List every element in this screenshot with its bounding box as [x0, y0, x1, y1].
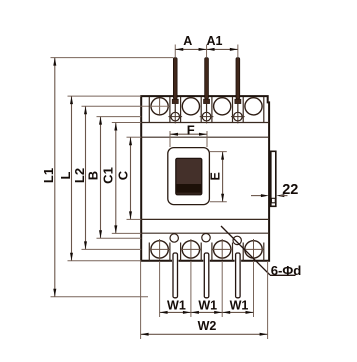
top terminal screw 3 — [231, 110, 245, 124]
bottom mounting hole 3 (6-Phi-d) — [233, 236, 241, 244]
top pin 2 — [204, 58, 210, 113]
svg-text:C1: C1 — [100, 167, 115, 184]
top strip bottom line — [141, 122, 269, 124]
dimension W2 — [141, 261, 268, 339]
dimension C — [115, 137, 141, 219]
svg-text:A: A — [183, 34, 192, 48]
bottom mounting hole 2 — [202, 234, 210, 242]
svg-text:W1: W1 — [230, 299, 249, 313]
face top line — [141, 136, 269, 138]
bottom pin 2 — [203, 253, 210, 298]
top terminal screw 1 — [168, 110, 182, 124]
svg-text:A1: A1 — [207, 34, 223, 48]
dimension A1 — [207, 34, 238, 57]
bottom terminal circle 1 — [149, 239, 170, 260]
svg-text:L: L — [58, 171, 73, 179]
dimension A — [175, 34, 206, 57]
top pole divider walls — [149, 97, 263, 123]
bottom strip inner line — [141, 232, 269, 234]
svg-text:W2: W2 — [198, 319, 217, 333]
face bottom line — [141, 218, 269, 220]
top terminal circle 2 — [182, 98, 199, 115]
leader 6-phi-d — [221, 226, 301, 278]
top terminal circle 3 — [214, 98, 231, 115]
bottom terminal circle 3 — [212, 239, 233, 260]
svg-text:W1: W1 — [167, 299, 186, 313]
bottom pin 3 — [235, 253, 242, 298]
bottom terminal circle 4 — [243, 239, 264, 260]
svg-text:E: E — [209, 172, 223, 180]
dimension C1 — [100, 123, 141, 234]
bottom pole divider walls — [149, 243, 263, 261]
svg-text:6-Φd: 6-Φd — [271, 263, 302, 278]
top terminal screw 2 — [200, 110, 214, 124]
svg-text:W1: W1 — [198, 299, 217, 313]
dimension W1 set — [160, 261, 254, 317]
dimension L — [58, 96, 141, 261]
dimension L1 — [41, 58, 173, 297]
svg-text:C: C — [115, 170, 130, 180]
svg-text:L1: L1 — [41, 168, 56, 183]
svg-text:F: F — [187, 122, 195, 137]
svg-text:B: B — [86, 171, 101, 180]
handle — [176, 158, 202, 195]
bottom pin 1 — [172, 253, 179, 298]
dimension E — [209, 152, 227, 202]
dimension L2 — [72, 106, 141, 249]
top pin 3 — [235, 58, 241, 113]
top pin 1 — [172, 58, 178, 113]
bottom terminal circle 2 — [181, 239, 202, 260]
dimension B — [86, 117, 142, 239]
handle escutcheon — [168, 148, 210, 205]
top terminal circle 4 — [245, 98, 262, 115]
dimension 22 — [251, 182, 298, 198]
dimension F — [170, 122, 207, 147]
top terminal circle 1 — [141, 98, 170, 115]
bottom mounting hole 1 — [170, 234, 178, 242]
svg-text:22: 22 — [282, 182, 298, 198]
breaker body outline — [141, 96, 269, 261]
accessory tab right side — [271, 151, 276, 206]
